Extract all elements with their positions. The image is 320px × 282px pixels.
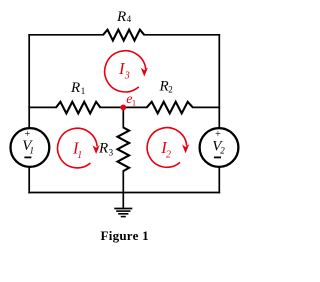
svg-text:1: 1 [132, 98, 136, 108]
svg-text:2: 2 [168, 84, 173, 94]
svg-text:1: 1 [81, 86, 86, 96]
svg-text:R: R [98, 140, 108, 156]
svg-text:R: R [70, 80, 80, 96]
svg-text:3: 3 [124, 71, 130, 82]
svg-text:4: 4 [127, 14, 132, 24]
svg-text:R: R [159, 79, 169, 95]
svg-text:1: 1 [77, 150, 82, 161]
svg-text:Figure 1: Figure 1 [101, 228, 149, 243]
svg-text:3: 3 [109, 148, 114, 158]
svg-text:1: 1 [30, 145, 35, 155]
svg-text:2: 2 [166, 150, 171, 161]
svg-text:2: 2 [220, 146, 225, 156]
svg-text:R: R [116, 9, 126, 25]
